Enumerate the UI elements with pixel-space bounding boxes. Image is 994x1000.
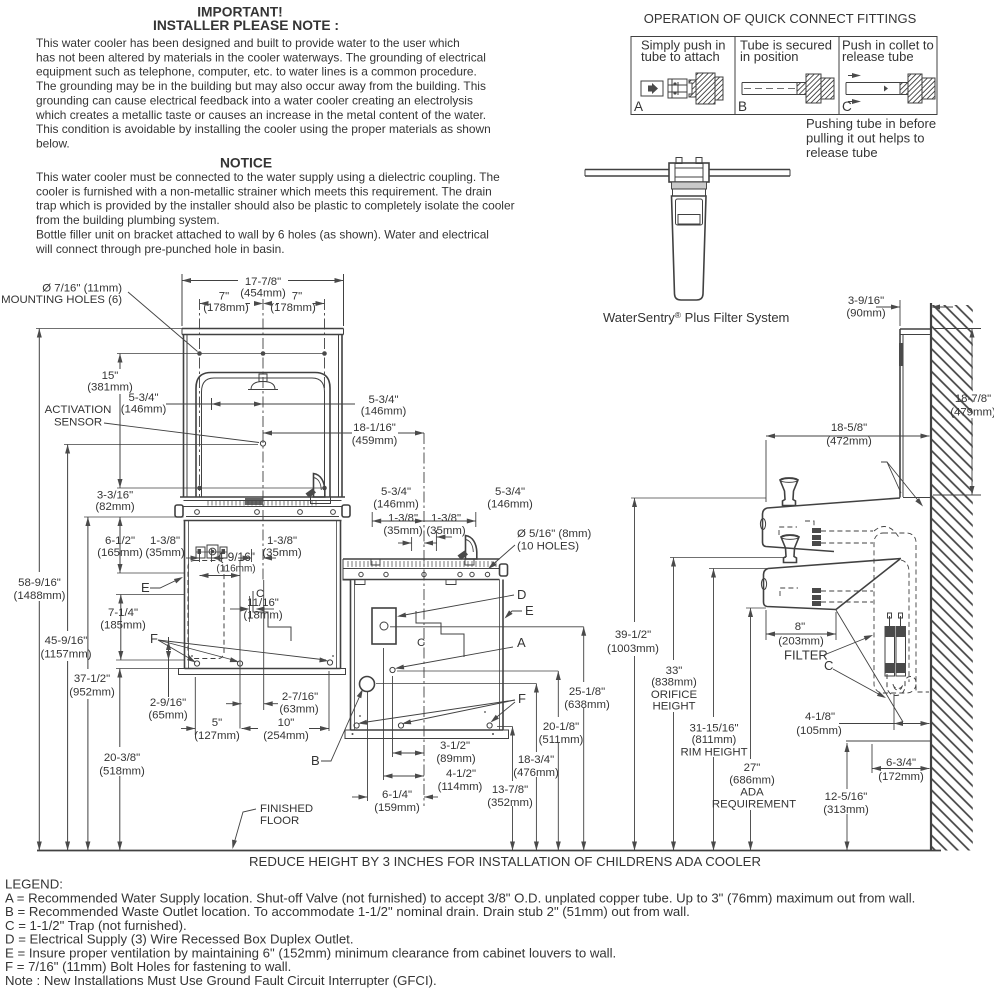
svg-text:(18mm): (18mm) — [243, 610, 282, 622]
svg-text:3-9/16": 3-9/16" — [848, 295, 884, 307]
svg-text:WaterSentry® Plus Filter Syste: WaterSentry® Plus Filter System — [603, 310, 789, 325]
filter body — [672, 196, 707, 300]
svg-text:FILTER: FILTER — [784, 648, 828, 663]
dim 13-7/8 — [512, 727, 514, 782]
dim 8 inch — [765, 610, 767, 640]
svg-text:ADA: ADA — [740, 787, 764, 799]
lower bubbler side — [781, 535, 799, 562]
upper basin grille — [207, 501, 209, 506]
svg-text:which creates a metallic taste: which creates a metallic taste or causes… — [35, 108, 486, 122]
svg-text:This water cooler must be conn: This water cooler must be connected to t… — [36, 170, 500, 184]
svg-text:FINISHED: FINISHED — [260, 803, 313, 815]
fitting B body (hatched) — [797, 74, 834, 103]
svg-text:58-9/16": 58-9/16" — [18, 577, 61, 589]
svg-text:ORIFICE: ORIFICE — [651, 689, 698, 701]
svg-text:equipment such as telephone, c: equipment such as telephone, computer, e… — [36, 65, 477, 79]
svg-text:37-1/2": 37-1/2" — [74, 673, 110, 685]
floor line — [37, 850, 941, 852]
svg-text:B: B — [311, 753, 320, 768]
svg-text:Ø 5/16" (8mm): Ø 5/16" (8mm) — [517, 528, 592, 540]
lower cabinet bottom flange — [351, 729, 504, 731]
svg-text:C: C — [824, 658, 833, 673]
svg-text:(178mm): (178mm) — [203, 302, 249, 314]
svg-text:below.: below. — [36, 136, 70, 150]
fitting C body (hatched) — [900, 74, 935, 103]
lower basin top — [343, 558, 500, 560]
svg-text:1-3/8": 1-3/8" — [150, 535, 180, 547]
svg-text:release tube: release tube — [806, 145, 878, 160]
svg-text:(35mm): (35mm) — [145, 547, 184, 559]
svg-text:(454mm): (454mm) — [240, 288, 286, 300]
dim 18-5/8 — [765, 440, 767, 502]
svg-text:(146mm): (146mm) — [373, 499, 419, 511]
svg-text:(459mm): (459mm) — [352, 435, 398, 447]
bottle filler panel top cap — [182, 328, 344, 330]
leader from cabinet to drain — [836, 610, 903, 722]
svg-text:(511mm): (511mm) — [539, 734, 584, 746]
dim 4-1/2 — [383, 648, 385, 780]
svg-text:12-5/16": 12-5/16" — [825, 791, 868, 803]
svg-text:RIM HEIGHT: RIM HEIGHT — [680, 747, 747, 759]
upper basin top — [180, 496, 345, 498]
fitting C push arrows — [848, 75, 858, 77]
svg-text:REDUCE HEIGHT BY 3 INCHES FOR: REDUCE HEIGHT BY 3 INCHES FOR INSTALLATI… — [249, 854, 761, 869]
svg-text:F = 7/16" (11mm) Bolt Holes fo: F = 7/16" (11mm) Bolt Holes for fastenin… — [5, 959, 291, 974]
dim 33 orifice height — [670, 557, 786, 559]
svg-text:(1003mm): (1003mm) — [607, 643, 659, 655]
svg-text:release tube: release tube — [842, 49, 914, 64]
wall clearance leaders — [881, 462, 901, 493]
svg-text:SENSOR: SENSOR — [54, 417, 102, 429]
dim 18-3/4 — [535, 684, 537, 753]
svg-text:(35mm): (35mm) — [426, 525, 465, 537]
lower basin side lug — [500, 564, 508, 576]
svg-text:A: A — [634, 99, 643, 114]
lower internal step — [416, 611, 464, 657]
dim 20-3/8 vertical — [119, 669, 121, 748]
svg-text:(165mm): (165mm) — [97, 547, 143, 559]
svg-text:3-3/16": 3-3/16" — [97, 490, 133, 502]
svg-text:(35mm): (35mm) — [383, 525, 422, 537]
svg-text:5-3/4": 5-3/4" — [368, 394, 398, 406]
svg-text:33": 33" — [666, 665, 683, 677]
lower unit centerline — [423, 433, 425, 806]
lower unit internals dashed — [780, 588, 798, 596]
quick connect table frame — [631, 37, 937, 115]
lower unit profile basin — [768, 559, 901, 569]
svg-text:2-7/16": 2-7/16" — [282, 691, 318, 703]
svg-text:6-1/4": 6-1/4" — [382, 789, 412, 801]
upper cabinet bottom flange — [185, 668, 341, 670]
lower basin brackets — [355, 580, 365, 585]
svg-text:MOUNTING HOLES (6): MOUNTING HOLES (6) — [1, 294, 122, 306]
svg-text:F: F — [150, 631, 158, 646]
bottle filler spout dome — [251, 382, 275, 390]
svg-text:(811mm): (811mm) — [692, 734, 737, 746]
svg-text:(479mm): (479mm) — [950, 407, 994, 419]
lower basin bolt holes — [359, 572, 363, 576]
electrical box D — [372, 608, 396, 644]
svg-text:(116mm): (116mm) — [216, 564, 255, 575]
dim 6-3/4 — [871, 744, 873, 773]
svg-text:1-3/8": 1-3/8" — [388, 513, 418, 525]
lower cabinet — [350, 580, 352, 730]
svg-text:4-1/8": 4-1/8" — [805, 711, 835, 723]
dim 15 inch — [119, 354, 121, 370]
svg-text:(172mm): (172mm) — [878, 771, 924, 783]
svg-text:E: E — [525, 603, 534, 618]
svg-text:C: C — [417, 637, 425, 649]
svg-text:(159mm): (159mm) — [374, 802, 420, 814]
svg-text:(313mm): (313mm) — [823, 804, 869, 816]
svg-text:18-1/16": 18-1/16" — [353, 422, 396, 434]
water fittings cluster — [196, 547, 205, 558]
svg-text:B: B — [738, 99, 747, 114]
lower bubbler — [466, 536, 477, 560]
svg-text:(105mm): (105mm) — [796, 725, 842, 737]
svg-text:45-9/16": 45-9/16" — [45, 635, 88, 647]
dim 58-9/16 vertical — [38, 329, 40, 573]
svg-text:FLOOR: FLOOR — [260, 815, 299, 827]
svg-text:C = 1-1/2" Trap (not furnished: C = 1-1/2" Trap (not furnished). — [5, 918, 187, 933]
ADA 27 line — [846, 740, 931, 742]
svg-text:has not been altered by materi: has not been altered by materials in the… — [36, 50, 486, 64]
dim 25-1/8 — [583, 627, 585, 682]
vent panel dashed — [188, 561, 224, 659]
svg-text:10": 10" — [278, 717, 295, 729]
svg-text:(686mm): (686mm) — [729, 775, 775, 787]
drain stub centerline — [893, 694, 895, 730]
svg-text:pulling it out helps to: pulling it out helps to — [806, 131, 925, 146]
svg-text:F: F — [518, 691, 526, 706]
filter cartridges — [885, 628, 895, 676]
svg-text:(476mm): (476mm) — [513, 767, 559, 779]
svg-text:(90mm): (90mm) — [846, 308, 885, 320]
svg-text:(518mm): (518mm) — [99, 766, 145, 778]
svg-text:Ø 7/16" (11mm): Ø 7/16" (11mm) — [42, 283, 122, 295]
svg-text:20-3/8": 20-3/8" — [104, 752, 140, 764]
svg-text:tube to attach: tube to attach — [641, 49, 720, 64]
svg-text:(472mm): (472mm) — [826, 436, 872, 448]
waste outlet B — [360, 677, 375, 692]
dim 6-1/2 — [119, 517, 121, 573]
upper basin side lugs — [175, 505, 183, 517]
dim 45-9/16 vertical — [67, 445, 69, 632]
svg-text:D: D — [517, 587, 526, 602]
filter label — [676, 199, 703, 225]
dim 5 inch — [194, 677, 196, 735]
mounting hole row 1 — [117, 353, 325, 355]
svg-text:(185mm): (185mm) — [100, 620, 146, 632]
upper cabinet bolt holes F — [194, 661, 199, 666]
dim 37-1/2 vertical — [87, 517, 89, 669]
svg-text:25-1/8": 25-1/8" — [569, 686, 605, 698]
trap dashed — [887, 674, 929, 695]
svg-text:Pushing tube in before: Pushing tube in before — [806, 116, 936, 131]
svg-text:HEIGHT: HEIGHT — [652, 701, 695, 713]
svg-text:(89mm): (89mm) — [436, 753, 475, 765]
upper bubbler side — [780, 478, 798, 505]
svg-text:18-7/8": 18-7/8" — [955, 393, 991, 405]
svg-text:(381mm): (381mm) — [87, 382, 133, 394]
upper basin apron — [186, 516, 339, 518]
svg-text:6-1/2": 6-1/2" — [105, 535, 135, 547]
side panel back/front — [899, 329, 901, 498]
dim 39-1/2 — [631, 497, 766, 499]
lower cabinet bolt holes F — [354, 723, 359, 728]
svg-text:39-1/2": 39-1/2" — [615, 629, 651, 641]
activation sensor dot — [260, 441, 265, 446]
internal channel step — [253, 591, 291, 641]
dim 31-15/16 rim height — [709, 568, 768, 570]
dim 12-5/16 — [846, 743, 848, 789]
dim 17-7/8 — [181, 274, 183, 326]
panel alcove inner — [202, 378, 325, 497]
wall line — [930, 303, 932, 851]
dim 10 inch — [328, 671, 330, 731]
filter collar — [672, 182, 707, 189]
dim 4-1/8 — [839, 723, 930, 725]
panel centerlines — [199, 299, 201, 497]
svg-text:E: E — [141, 580, 150, 595]
svg-text:4-1/2": 4-1/2" — [446, 768, 476, 780]
svg-text:cooler is furnished with a non: cooler is furnished with a non-metallic … — [36, 184, 492, 198]
svg-text:(1157mm): (1157mm) — [40, 649, 91, 661]
dim 3-1/2 — [392, 676, 394, 757]
svg-text:REQUIREMENT: REQUIREMENT — [712, 799, 796, 811]
svg-text:5-3/4": 5-3/4" — [495, 486, 525, 498]
svg-text:4-9/16": 4-9/16" — [217, 550, 255, 564]
svg-text:(254mm): (254mm) — [263, 730, 309, 742]
pipe chase dashed — [874, 533, 916, 693]
dim 6-1/4 — [367, 692, 369, 801]
dim 18-1/16 — [263, 432, 352, 434]
svg-text:grounding can cause electrical: grounding can cause electrical feedback … — [36, 93, 473, 107]
svg-text:Note : New Installations Must: Note : New Installations Must Use Ground… — [5, 973, 437, 988]
svg-text:This water cooler has been des: This water cooler has been designed and … — [36, 36, 460, 50]
svg-text:1-3/8": 1-3/8" — [431, 513, 461, 525]
svg-text:(638mm): (638mm) — [564, 699, 610, 711]
fitting B tube — [742, 82, 800, 84]
dim 3-9/16 — [899, 300, 901, 326]
svg-text:6-3/4": 6-3/4" — [886, 757, 916, 769]
svg-text:LEGEND:: LEGEND: — [5, 877, 63, 892]
svg-text:31-15/16": 31-15/16" — [689, 723, 738, 735]
side panel top cap — [900, 328, 931, 330]
svg-text:2-9/16": 2-9/16" — [150, 697, 186, 709]
lower unit profile front — [764, 569, 837, 610]
bottle filler panel sides — [183, 335, 185, 498]
svg-text:15": 15" — [102, 370, 119, 382]
svg-text:B = Recommended Waste Outlet l: B = Recommended Waste Outlet location. T… — [5, 904, 690, 919]
dim 20-1/8 — [557, 671, 559, 717]
svg-text:D = Electrical Supply (3) Wire: D = Electrical Supply (3) Wire Recessed … — [5, 932, 354, 947]
svg-text:5": 5" — [212, 717, 222, 729]
fitting A collet — [668, 79, 687, 98]
svg-text:20-1/8": 20-1/8" — [543, 721, 579, 733]
upper cabinet — [184, 521, 186, 669]
dim 18-7/8 — [933, 328, 981, 330]
filter mounting bracket bar — [585, 169, 669, 171]
svg-text:(952mm): (952mm) — [69, 687, 115, 699]
dim 2-7/16 — [226, 703, 242, 705]
svg-text:OPERATION OF QUICK CONNECT FIT: OPERATION OF QUICK CONNECT FITTINGS — [644, 11, 917, 26]
svg-text:(146mm): (146mm) — [487, 499, 533, 511]
fitting A body (hatched) — [689, 73, 723, 104]
upper unit profile front — [763, 508, 835, 552]
svg-text:(146mm): (146mm) — [121, 404, 167, 416]
svg-text:8": 8" — [795, 621, 805, 633]
svg-text:(203mm): (203mm) — [778, 636, 824, 648]
svg-text:27": 27" — [744, 762, 761, 774]
svg-text:trap which is provided by the: trap which is provided by the installer … — [36, 199, 515, 213]
svg-text:A: A — [517, 635, 526, 650]
svg-text:5-3/4": 5-3/4" — [381, 486, 411, 498]
upper bubbler — [314, 474, 325, 498]
svg-text:(114mm): (114mm) — [438, 781, 483, 793]
dim 27 ADA requirement — [746, 607, 766, 609]
svg-text:18-5/8": 18-5/8" — [831, 422, 867, 434]
svg-text:7-1/4": 7-1/4" — [108, 607, 138, 619]
wall hatching — [932, 305, 973, 851]
svg-text:from the building plumbing sys: from the building plumbing system. — [36, 213, 220, 227]
filter head — [669, 163, 709, 182]
svg-text:(127mm): (127mm) — [194, 730, 240, 742]
svg-text:5-3/4": 5-3/4" — [128, 392, 158, 404]
supply hole A — [390, 667, 395, 672]
svg-text:will connect through pre-punch: will connect through pre-punched hole in… — [35, 242, 285, 256]
svg-text:NOTICE: NOTICE — [220, 156, 272, 171]
svg-text:3-1/2": 3-1/2" — [440, 740, 470, 752]
svg-text:Bottle filler unit on bracket: Bottle filler unit on bracket attached t… — [36, 227, 489, 241]
svg-text:18-3/4": 18-3/4" — [518, 754, 554, 766]
svg-text:(1488mm): (1488mm) — [14, 590, 66, 602]
svg-text:(63mm): (63mm) — [279, 704, 318, 716]
panel alcove outer — [196, 373, 330, 498]
fitting A tube stub — [641, 81, 663, 96]
step between units — [343, 559, 351, 580]
mounting hole row 2 — [117, 487, 325, 489]
svg-text:A = Recommended Water Supply l: A = Recommended Water Supply location. S… — [5, 890, 915, 905]
svg-text:ACTIVATION: ACTIVATION — [45, 404, 112, 416]
svg-text:7": 7" — [219, 291, 229, 303]
svg-text:E = Insure proper ventilation: E = Insure proper ventilation by maintai… — [5, 945, 616, 960]
svg-text:1-3/8": 1-3/8" — [267, 535, 297, 547]
upper unit profile basin — [767, 498, 900, 508]
svg-text:The grounding may be in the bu: The grounding may be in the building but… — [36, 79, 486, 93]
fitting C tube — [846, 82, 903, 84]
svg-text:INSTALLER PLEASE NOTE :: INSTALLER PLEASE NOTE : — [153, 18, 339, 33]
lower unit underside to wall — [836, 559, 900, 610]
svg-text:17-7/8": 17-7/8" — [245, 276, 281, 288]
svg-text:(65mm): (65mm) — [148, 710, 187, 722]
svg-text:(82mm): (82mm) — [95, 501, 134, 513]
svg-text:This condition is avoidable by: This condition is avoidable by installin… — [36, 122, 491, 136]
dim 7-1/4 — [120, 595, 122, 661]
svg-text:(10 HOLES): (10 HOLES) — [517, 541, 579, 553]
svg-text:(352mm): (352mm) — [487, 797, 533, 809]
svg-text:13-7/8": 13-7/8" — [492, 784, 528, 796]
upper unit internals dashed — [779, 527, 797, 535]
dim 2-9/16 — [168, 637, 170, 697]
svg-text:in position: in position — [740, 49, 799, 64]
svg-text:7": 7" — [292, 291, 302, 303]
svg-text:(838mm): (838mm) — [651, 677, 697, 689]
svg-text:(146mm): (146mm) — [361, 406, 407, 418]
